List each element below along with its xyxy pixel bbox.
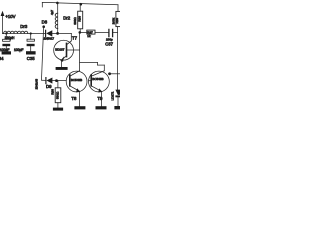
svg-text:1k: 1k [87,34,91,38]
ground (T7 emitter) [56,67,68,70]
transistor T8 [66,71,87,106]
wire T7 collector [70,33,72,41]
svg-text:BC548B: BC548B [92,77,103,81]
node B junction [79,31,82,34]
wire node B down [79,32,81,70]
ground (C35) [26,51,36,54]
svg-text:C35: C35 [27,56,35,61]
resistor R39 (100k pull) [116,5,121,90]
transistor T9 [89,71,110,106]
wire D9 branch drop [42,27,44,80]
svg-text:1N4148: 1N4148 [34,79,38,90]
svg-text:1N5617: 1N5617 [44,37,55,41]
node +10V supply arrow [1,11,5,34]
svg-text:C34: C34 [0,56,4,61]
svg-text:D8: D8 [42,19,48,24]
node top rail junction [56,2,59,5]
svg-text:T7: T7 [72,35,78,40]
svg-text:R38: R38 [50,89,54,95]
inductor Dr3 [4,31,28,33]
svg-text:BD137: BD137 [55,47,65,51]
wire mid rail left [3,33,46,35]
node C35 tap [30,32,32,34]
svg-text:C37: C37 [105,41,113,46]
capacitor C37 [109,29,118,36]
ground (R38) [53,108,63,111]
capacitor C35 [27,34,35,52]
capacitor C34 [2,34,10,52]
svg-text:+10V: +10V [5,14,15,19]
node junction above D8 [42,25,45,28]
svg-text:100µF: 100µF [14,48,23,52]
svg-text:4µ7: 4µ7 [50,10,54,15]
ground (C34) [2,51,11,54]
resistor R36 [78,5,83,33]
svg-text:D9: D9 [46,84,52,89]
node mid rail / Dr2 junction [56,32,59,35]
diode D9 [42,78,67,84]
svg-text:390Ω: 390Ω [73,17,77,25]
svg-text:100µF: 100µF [0,48,9,52]
diode D10 (IR LED) [115,90,120,106]
ground (LED) [114,106,120,109]
svg-text:LD271: LD271 [111,91,115,100]
wire top rail [57,3,118,5]
ground (T8) [74,106,85,109]
node T9 collector tap [108,72,111,75]
svg-text:560Ω: 560Ω [56,91,60,99]
svg-text:Dr3: Dr3 [20,24,28,29]
svg-text:Dr2: Dr2 [63,16,71,21]
svg-text:T8: T8 [71,96,77,101]
inductor Dr2 [55,3,58,33]
svg-text:R36: R36 [77,16,81,22]
wire T7 base node to T8/T9 [80,62,98,64]
wire top bracket [42,2,57,7]
node D9 / R38 / T8 base [55,79,58,82]
svg-text:R39: R39 [115,18,119,24]
transistor T7 [54,40,80,67]
svg-text:BC548B: BC548B [71,78,82,82]
node R36 top [80,3,83,6]
resistor R37 [87,30,109,34]
wire mid rail right [58,32,72,34]
resistor R38 [55,81,61,108]
ground (T9) [96,106,107,109]
node C34 tap [5,32,7,34]
wire node B to R37 [80,31,87,33]
wire output right [109,73,120,75]
svg-text:T9: T9 [97,96,103,101]
diode D8 [46,30,58,36]
